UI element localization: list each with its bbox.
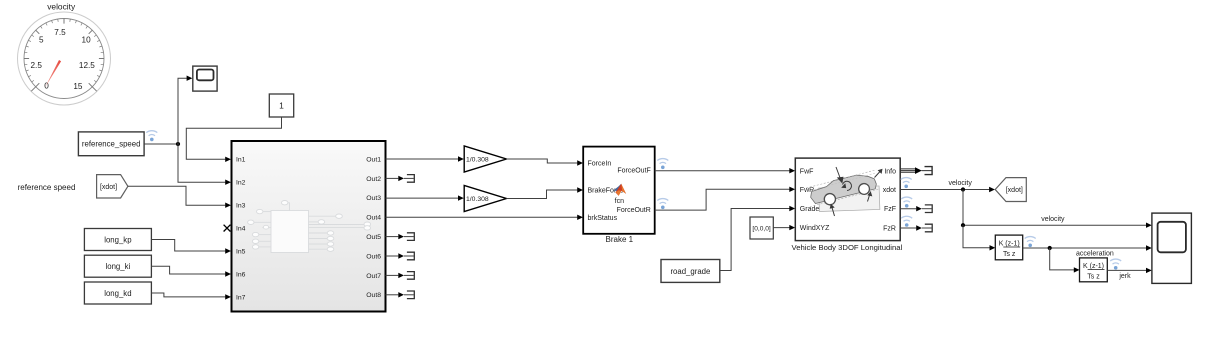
svg-text:In3: In3	[236, 203, 246, 210]
wireless icon (FzF)	[901, 197, 912, 208]
svg-text:Ts z: Ts z	[1003, 251, 1016, 258]
svg-text:In7: In7	[236, 294, 246, 301]
wire xdot to Goto (with junction)	[900, 187, 995, 192]
discrete derivative block 1	[995, 235, 1022, 260]
svg-text:FzR: FzR	[883, 226, 896, 233]
svg-text:long_kd: long_kd	[104, 289, 131, 298]
wire Out3 to gain2	[386, 195, 464, 200]
svg-text:Out8: Out8	[366, 292, 381, 299]
gauge inner scale circle	[24, 19, 104, 99]
wireless icon (ForceOutF)	[657, 159, 668, 170]
wire derivative2 to scope	[1107, 268, 1152, 273]
svg-text:2.5: 2.5	[31, 61, 43, 70]
svg-text:WindXYZ: WindXYZ	[800, 225, 830, 232]
junction dot velocity branch	[961, 223, 965, 227]
junction dot	[176, 142, 180, 146]
gauge needle	[45, 60, 61, 88]
svg-text:FwF: FwF	[800, 168, 814, 175]
svg-text:velocity: velocity	[47, 2, 76, 12]
wire long_kd to In7	[151, 293, 231, 300]
svg-text:ForceIn: ForceIn	[588, 160, 612, 167]
svg-text:In5: In5	[236, 248, 246, 255]
svg-text:ForceOutR: ForceOutR	[617, 207, 651, 214]
terminator at Out5	[386, 233, 415, 241]
terminator at FzR	[900, 224, 932, 232]
wire derivative1 to scope	[1023, 245, 1152, 250]
gain block 1/0.308 (lower)	[464, 186, 506, 212]
svg-text:[0,0,0]: [0,0,0]	[752, 226, 770, 233]
svg-text:0: 0	[44, 82, 49, 91]
svg-text:velocity: velocity	[949, 180, 973, 187]
wire road_grade to Grade	[720, 206, 795, 271]
svg-text:Vehicle Body 3DOF Longitudinal: Vehicle Body 3DOF Longitudinal	[792, 243, 903, 252]
wire junction to In2	[178, 144, 231, 185]
wireless icon (ForceOutR)	[657, 199, 668, 210]
terminator at FzF	[900, 205, 932, 213]
wireless icon (derivative1)	[1025, 237, 1036, 248]
block long_kd	[84, 282, 151, 304]
wire long_kp to In5	[151, 240, 231, 254]
svg-text:[xdot]: [xdot]	[1006, 187, 1023, 194]
svg-text:Out1: Out1	[366, 156, 381, 163]
wireless icon (FzR)	[901, 216, 912, 227]
svg-text:long_kp: long_kp	[104, 235, 132, 244]
svg-text:Out2: Out2	[366, 176, 381, 183]
MATLAB function block Brake 1	[583, 147, 655, 234]
MATLAB logo on Brake 1	[613, 184, 626, 196]
wire long_ki to In6	[151, 266, 231, 276]
svg-text:Out6: Out6	[366, 253, 381, 260]
svg-text:15: 15	[73, 82, 83, 91]
block long_ki	[84, 255, 151, 277]
gauge velocity (dial display)	[18, 2, 111, 106]
svg-text:Grade: Grade	[800, 206, 820, 213]
constant 1	[269, 94, 293, 117]
gain block 1/0.308 (upper)	[464, 146, 506, 172]
svg-text:[xdot]: [xdot]	[100, 184, 117, 191]
wire constant 1 to In1	[186, 117, 281, 162]
wireless icon (derivative2)	[1110, 259, 1121, 270]
svg-text:10: 10	[82, 35, 92, 44]
svg-text:12.5: 12.5	[79, 61, 95, 70]
svg-text:In6: In6	[236, 271, 246, 278]
wire [0,0,0] to WindXYZ	[773, 225, 795, 230]
vehicle car icon	[819, 186, 880, 212]
svg-text:5: 5	[39, 35, 44, 44]
gauge tick marks	[24, 19, 104, 92]
wireless icon (reference_speed)	[146, 131, 157, 142]
bus wire Info to terminator	[900, 167, 932, 175]
goto block [xdot]	[995, 178, 1026, 202]
block road_grade	[661, 260, 720, 283]
wire Out4 to brkStatus	[386, 215, 584, 220]
scope block (right)	[1152, 213, 1192, 283]
svg-text:long_ki: long_ki	[106, 262, 131, 271]
from block [xdot]	[97, 175, 128, 198]
block reference_speed	[78, 132, 144, 156]
wire junction to scope	[178, 76, 192, 145]
svg-text:Brake 1: Brake 1	[606, 235, 634, 244]
wire Out1 to gain1	[386, 156, 464, 161]
terminator at Out2	[386, 175, 415, 183]
unconnected port marker In4	[224, 225, 231, 232]
svg-text:fcn: fcn	[615, 198, 624, 205]
subsystem block (controller)	[232, 141, 386, 312]
svg-text:In2: In2	[236, 180, 246, 187]
svg-text:Info: Info	[884, 169, 896, 176]
discrete derivative block 2	[1080, 258, 1108, 282]
block Vehicle Body 3DOF Longitudinal	[795, 158, 900, 241]
svg-text:Out7: Out7	[366, 273, 381, 280]
svg-text:xdot: xdot	[883, 187, 896, 194]
gauge outer ring	[18, 12, 111, 105]
svg-text:FzF: FzF	[884, 206, 896, 213]
svg-text:Out4: Out4	[366, 215, 381, 222]
wire reference_speed to junction	[144, 143, 178, 145]
wire gain2 to BrakeForce	[506, 187, 583, 198]
svg-text:K (z-1): K (z-1)	[999, 240, 1020, 247]
svg-text:Ts z: Ts z	[1087, 274, 1100, 281]
constant block [0,0,0]	[750, 217, 773, 239]
svg-text:1: 1	[279, 101, 284, 111]
svg-text:reference speed: reference speed	[18, 183, 76, 192]
svg-text:ForceOutF: ForceOutF	[617, 167, 650, 174]
junction dot acceleration branch	[1048, 246, 1052, 250]
wire branch down to derivative2	[1050, 248, 1080, 273]
wire gain1 to ForceIn	[506, 159, 583, 166]
svg-text:velocity: velocity	[1041, 216, 1065, 223]
wire from [xdot] to In3	[128, 186, 231, 208]
junction dot xdot	[961, 187, 965, 191]
svg-text:jerk: jerk	[1118, 273, 1131, 280]
terminator at Out8	[386, 291, 415, 299]
terminator at Out7	[386, 272, 415, 280]
svg-text:In1: In1	[236, 157, 246, 164]
scope block (top)	[193, 66, 217, 91]
svg-text:Out3: Out3	[366, 195, 381, 202]
svg-text:brkStatus: brkStatus	[588, 215, 618, 222]
wire ForceOutF to FwF	[655, 168, 795, 173]
svg-text:In4: In4	[236, 226, 246, 233]
svg-text:acceleration: acceleration	[1076, 250, 1114, 257]
block long_kp	[84, 229, 151, 251]
svg-text:reference_speed: reference_speed	[82, 140, 141, 149]
wire branch to scope velocity	[963, 190, 1152, 228]
svg-text:Out5: Out5	[366, 234, 381, 241]
wireless icon (xdot)	[901, 178, 912, 189]
svg-text:K (z-1): K (z-1)	[1083, 263, 1104, 270]
svg-text:1/0.308: 1/0.308	[466, 196, 489, 203]
subsystem watermark circuit	[248, 201, 371, 253]
terminator at Out6	[386, 252, 415, 260]
wire ForceOutR to FwR	[655, 187, 795, 211]
svg-text:road_grade: road_grade	[670, 267, 710, 276]
wire branch down to derivative1	[963, 225, 995, 250]
svg-text:1/0.308: 1/0.308	[466, 156, 489, 163]
vehicle icon arrows	[830, 167, 883, 216]
svg-text:7.5: 7.5	[54, 28, 66, 37]
